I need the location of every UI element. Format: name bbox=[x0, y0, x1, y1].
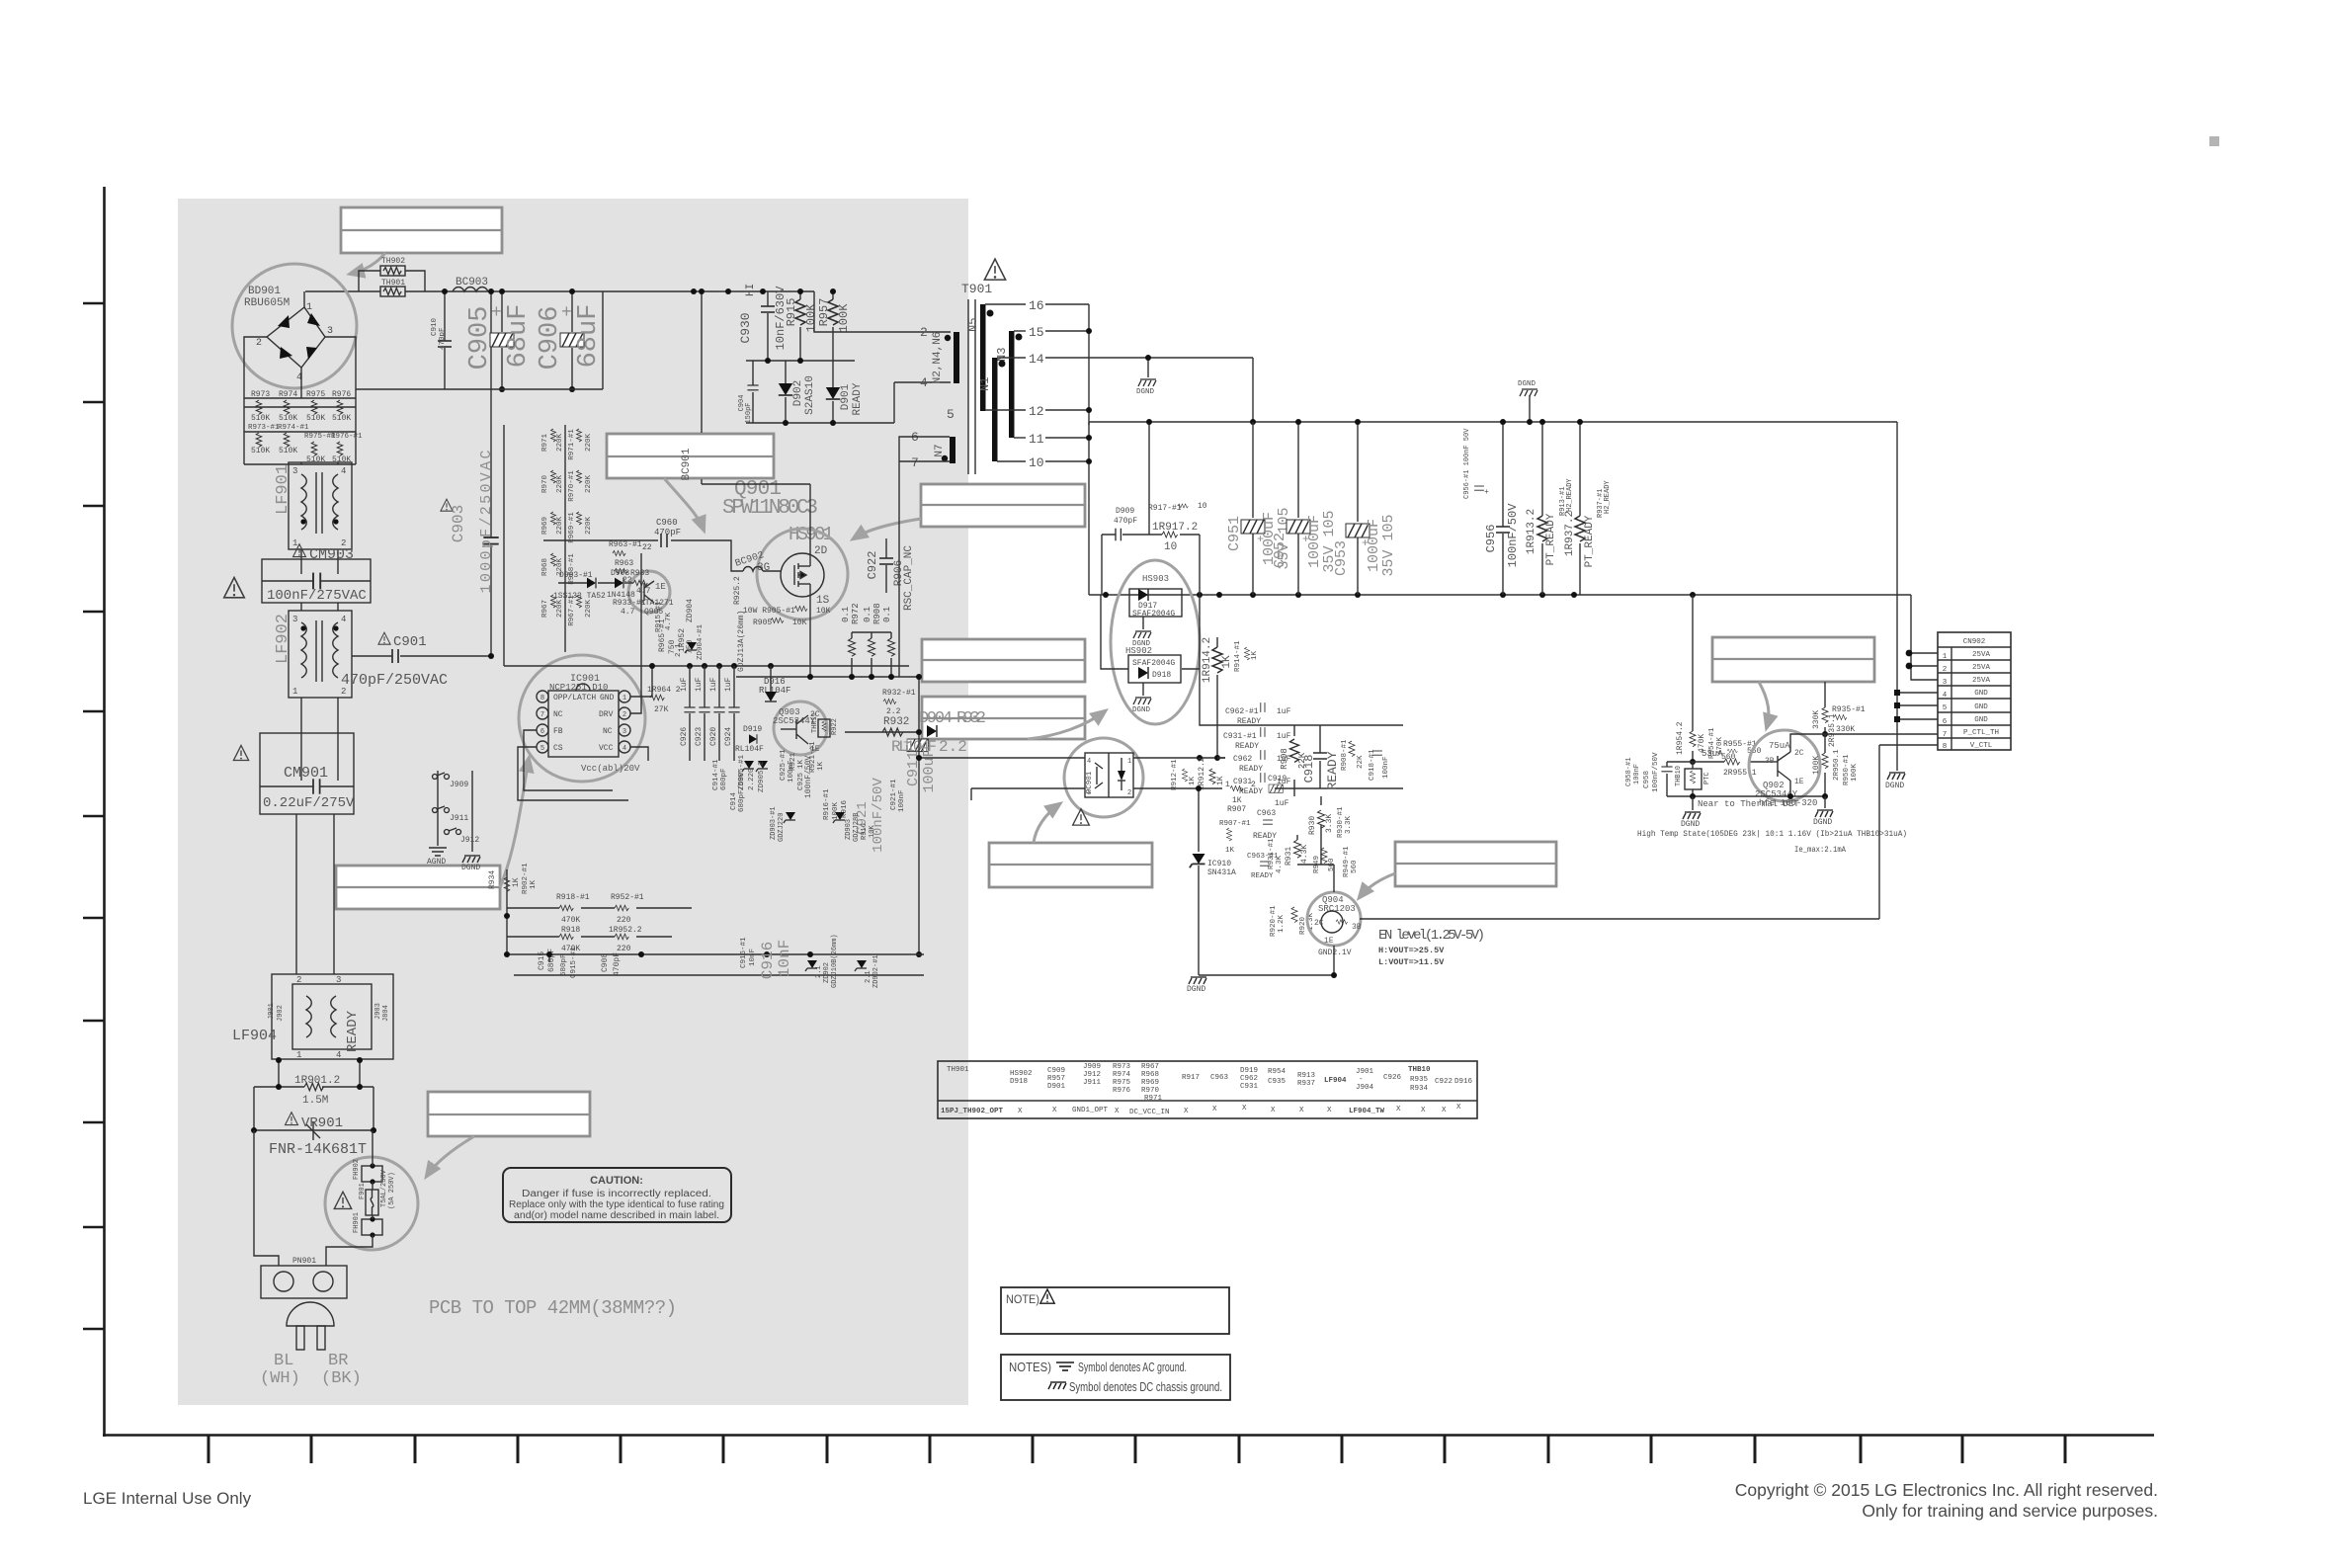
border ruler bottom line bbox=[103, 1434, 2154, 1437]
svg-text:2.1: 2.1 bbox=[865, 970, 872, 983]
svg-text:27K: 27K bbox=[654, 705, 669, 714]
svg-text:(5A 250V): (5A 250V) bbox=[388, 1172, 396, 1209]
svg-text:100K: 100K bbox=[837, 303, 851, 333]
resistor R916-#1 100K bbox=[823, 788, 849, 820]
svg-text:1: 1 bbox=[623, 695, 626, 702]
svg-text:R963: R963 bbox=[615, 559, 633, 568]
svg-text:ZD905.2: ZD905.2 bbox=[758, 761, 766, 792]
svg-text:470pF: 470pF bbox=[654, 528, 681, 537]
svg-text:J912: J912 bbox=[460, 836, 479, 845]
transformer core bbox=[967, 299, 969, 474]
svg-text:R935: R935 bbox=[1410, 1076, 1429, 1084]
svg-text:22: 22 bbox=[623, 576, 632, 585]
svg-text:D901: D901 bbox=[840, 383, 852, 410]
svg-text:C931-#1: C931-#1 bbox=[1223, 732, 1257, 741]
resistor R931 4.3K bbox=[1268, 838, 1309, 873]
svg-text:11: 11 bbox=[1029, 432, 1044, 447]
diode D901 bbox=[826, 361, 864, 423]
svg-text:J901: J901 bbox=[1356, 1068, 1374, 1076]
svg-text:R918: R918 bbox=[561, 926, 580, 935]
svg-text:1uF: 1uF bbox=[1277, 707, 1291, 716]
resistor R950 100K bbox=[1812, 734, 1859, 796]
svg-text:220K: 220K bbox=[585, 475, 593, 494]
svg-text:C962: C962 bbox=[1240, 1075, 1258, 1083]
svg-text:100K: 100K bbox=[1851, 763, 1859, 782]
svg-text:2.1: 2.1 bbox=[815, 965, 823, 978]
left ruler ticks bbox=[83, 303, 104, 1329]
thermistor TH902 bbox=[380, 257, 405, 276]
svg-text:X: X bbox=[1421, 1107, 1426, 1114]
capacitor C963-#1 READY bbox=[1247, 853, 1279, 880]
svg-text:510K: 510K bbox=[251, 447, 270, 455]
svg-text:2C: 2C bbox=[1794, 749, 1804, 758]
DGND below CN902 feed bbox=[1885, 773, 1905, 790]
wire D918 branch bbox=[1101, 595, 1225, 725]
svg-text:10: 10 bbox=[1029, 455, 1044, 470]
thermistor THR11 R922 bbox=[811, 712, 839, 737]
svg-text:6: 6 bbox=[1943, 718, 1948, 726]
callout box D (to PC901) bbox=[989, 843, 1152, 887]
resistor R930 3.3K bbox=[1308, 806, 1353, 838]
svg-text:GND2.1V: GND2.1V bbox=[1318, 949, 1352, 957]
option table bbox=[938, 1061, 1477, 1118]
svg-text:2.1: 2.1 bbox=[675, 643, 683, 657]
svg-text:4.7K: 4.7K bbox=[665, 612, 673, 630]
svg-text:R908-#1: R908-#1 bbox=[1341, 739, 1349, 771]
svg-text:THR11: THR11 bbox=[811, 712, 819, 733]
svg-text:ZD902: ZD902 bbox=[823, 962, 831, 983]
svg-text:R971-#1: R971-#1 bbox=[568, 429, 576, 460]
svg-text:680pF: 680pF bbox=[560, 953, 568, 976]
svg-text:D919: D919 bbox=[1240, 1067, 1258, 1075]
svg-text:8: 8 bbox=[540, 695, 544, 702]
svg-text:470pF: 470pF bbox=[1114, 517, 1137, 526]
svg-text:2.2: 2.2 bbox=[886, 707, 901, 716]
svg-text:1uF: 1uF bbox=[695, 677, 704, 692]
svg-text:1K: 1K bbox=[1225, 847, 1235, 855]
capacitor C956-#1 labels bbox=[1463, 428, 1489, 499]
AC inlet PN901 bbox=[261, 1257, 347, 1298]
svg-text:C956-#1 100nF 50V: C956-#1 100nF 50V bbox=[1463, 428, 1471, 499]
svg-text:C930: C930 bbox=[738, 312, 753, 343]
svg-text:BL: BL bbox=[274, 1352, 293, 1370]
svg-text:0.22uF/275V: 0.22uF/275V bbox=[263, 795, 355, 811]
transistor Q904 SRC1203 bbox=[1307, 892, 1362, 957]
svg-text:2.220: 2.220 bbox=[748, 768, 756, 790]
svg-text:J909: J909 bbox=[450, 781, 468, 789]
svg-text:READY: READY bbox=[1325, 751, 1340, 789]
svg-text:R973-#1: R973-#1 bbox=[248, 424, 280, 432]
svg-text:R907: R907 bbox=[1227, 805, 1246, 814]
svg-text:Vcc(abl)20V: Vcc(abl)20V bbox=[581, 764, 640, 774]
arrow from box G to BC902 area bbox=[664, 478, 704, 530]
svg-text:DGND: DGND bbox=[1136, 388, 1155, 396]
svg-text:R957: R957 bbox=[1047, 1075, 1065, 1083]
svg-text:100nF: 100nF bbox=[1382, 756, 1390, 779]
svg-text:C909: C909 bbox=[1047, 1067, 1065, 1075]
svg-text:BD901: BD901 bbox=[248, 286, 281, 297]
svg-text:C919: C919 bbox=[1268, 775, 1287, 784]
svg-text:F901: F901 bbox=[359, 1183, 367, 1199]
svg-text:R973: R973 bbox=[1113, 1063, 1131, 1071]
svg-text:SFAF2004G: SFAF2004G bbox=[1132, 610, 1175, 619]
DGND bottom bbox=[1187, 977, 1206, 994]
DGND below D918 bbox=[1132, 683, 1151, 714]
svg-text:PT_READY: PT_READY bbox=[1545, 513, 1557, 565]
svg-text:C951: C951 bbox=[1226, 516, 1243, 551]
svg-text:10K: 10K bbox=[792, 619, 807, 627]
svg-text:Near to Thermal DET: Near to Thermal DET bbox=[1698, 799, 1799, 809]
svg-text:TH902: TH902 bbox=[381, 257, 405, 266]
capacitor C956 100nF/50V bbox=[1484, 419, 1520, 595]
svg-text:READY: READY bbox=[1239, 765, 1263, 774]
resistor R975 bbox=[306, 390, 325, 423]
svg-text:4: 4 bbox=[341, 615, 346, 624]
svg-text:3: 3 bbox=[1943, 679, 1948, 687]
resistor R932 2.2 bbox=[882, 689, 916, 736]
svg-text:R932: R932 bbox=[956, 709, 986, 728]
resistor R915-#1 4.7K bbox=[655, 601, 673, 632]
svg-text:READY: READY bbox=[345, 1010, 361, 1052]
svg-text:DGND: DGND bbox=[1518, 380, 1536, 388]
svg-text:R908: R908 bbox=[1280, 748, 1289, 770]
wire bulk cap bottom rail bbox=[356, 291, 603, 389]
capacitor bank C926 C923 C920 C924 bbox=[680, 666, 740, 761]
svg-text:SPW11N80C3: SPW11N80C3 bbox=[722, 497, 818, 520]
svg-text:AGND: AGND bbox=[427, 858, 446, 867]
winding N1 bbox=[978, 358, 1006, 461]
arrow from box A to HS901 bbox=[854, 519, 921, 538]
svg-text:DC_VCC_IN: DC_VCC_IN bbox=[1129, 1109, 1170, 1116]
NOTES box bbox=[1001, 1355, 1230, 1400]
svg-text:CAUTION:: CAUTION: bbox=[590, 1175, 643, 1187]
svg-text:510K: 510K bbox=[306, 414, 325, 423]
svg-text:R902-#1: R902-#1 bbox=[522, 863, 530, 894]
svg-text:J902: J902 bbox=[277, 1005, 285, 1022]
pin 14 bbox=[997, 352, 1253, 367]
svg-text:C903: C903 bbox=[450, 505, 467, 542]
thermistor THB10 PTC bbox=[1675, 762, 1711, 796]
wire 25VA feed to CN902 bbox=[1911, 595, 1938, 680]
svg-text:100nF/50V: 100nF/50V bbox=[804, 756, 813, 798]
wire LF902 to CM901 bbox=[301, 603, 338, 733]
svg-text:H2_READY: H2_READY bbox=[1566, 478, 1574, 512]
svg-text:RL104F: RL104F bbox=[735, 745, 764, 754]
transformer T901 primary N2,N4,N6 bbox=[920, 325, 959, 422]
wire pin14 to +25V rail bbox=[1089, 358, 1897, 425]
svg-text:10: 10 bbox=[1164, 541, 1177, 553]
svg-text:2D: 2D bbox=[814, 545, 828, 557]
svg-text:100nF: 100nF bbox=[788, 760, 795, 783]
svg-text:R971: R971 bbox=[541, 434, 549, 453]
svg-text:3B: 3B bbox=[1765, 757, 1775, 766]
pin 11 bbox=[1014, 432, 1089, 447]
svg-text:4: 4 bbox=[1943, 692, 1948, 700]
bottom ruler ticks bbox=[208, 1436, 2065, 1463]
fuse circle group bbox=[325, 1157, 418, 1250]
svg-text:R957: R957 bbox=[817, 298, 831, 327]
svg-text:1uF: 1uF bbox=[1277, 732, 1291, 741]
snubber block C930 R915 R957 bbox=[738, 284, 855, 364]
svg-text:Ie_max:2.1mA: Ie_max:2.1mA bbox=[1794, 845, 1847, 855]
svg-text:1: 1 bbox=[306, 302, 312, 313]
svg-text:LF901: LF901 bbox=[274, 464, 292, 515]
svg-text:4.7: 4.7 bbox=[621, 608, 635, 617]
svg-text:CM901: CM901 bbox=[284, 765, 328, 782]
wire LF904 to R901 bbox=[279, 1059, 360, 1087]
wire rail corner to T901 pin2 bbox=[814, 291, 951, 332]
optocoupler PC901 bbox=[1064, 738, 1143, 817]
svg-text:FH901: FH901 bbox=[353, 1212, 361, 1233]
svg-text:HI: HI bbox=[745, 284, 757, 296]
jumpers J909 J911 J912 bbox=[427, 771, 480, 872]
svg-text:470pF: 470pF bbox=[439, 327, 447, 350]
svg-text:470K: 470K bbox=[561, 916, 580, 925]
svg-text:Symbol denotes AC ground.: Symbol denotes AC ground. bbox=[1078, 1361, 1187, 1374]
svg-text:3: 3 bbox=[292, 615, 297, 624]
svg-text:N1: N1 bbox=[978, 377, 992, 391]
svg-text:68uF: 68uF bbox=[504, 304, 534, 369]
svg-text:J912: J912 bbox=[1083, 1071, 1101, 1079]
svg-text:1K: 1K bbox=[817, 761, 825, 771]
svg-text:330K: 330K bbox=[1836, 725, 1855, 734]
plug symbol bbox=[287, 1302, 334, 1350]
svg-text:-: - bbox=[1359, 1076, 1364, 1084]
capacitor C931-#1 1uF READY bbox=[1223, 727, 1291, 751]
svg-text:Symbol denotes DC chassis grou: Symbol denotes DC chassis ground. bbox=[1069, 1380, 1222, 1394]
svg-text:1R917.2: 1R917.2 bbox=[1152, 522, 1198, 534]
electrolytic C911 100uF bbox=[903, 735, 938, 793]
svg-text:C920: C920 bbox=[709, 727, 718, 746]
svg-text:14: 14 bbox=[1029, 352, 1044, 367]
svg-text:R976-#1: R976-#1 bbox=[331, 433, 363, 441]
zener ZD904 + GDZJ13A bbox=[675, 599, 746, 672]
svg-text:J804: J804 bbox=[382, 1005, 390, 1022]
svg-text:10nF: 10nF bbox=[749, 949, 757, 966]
callout box I (top left) bbox=[341, 207, 502, 253]
svg-text:1: 1 bbox=[1943, 653, 1948, 661]
svg-text:2C: 2C bbox=[1314, 919, 1324, 928]
svg-text:C914: C914 bbox=[730, 791, 738, 810]
svg-text:100K: 100K bbox=[1812, 756, 1821, 775]
svg-text:X: X bbox=[1396, 1106, 1401, 1114]
svg-text:4.7: 4.7 bbox=[636, 587, 651, 596]
thermistor TH901 bbox=[380, 279, 405, 296]
svg-text:R917-#1: R917-#1 bbox=[1148, 504, 1182, 513]
MOSFET Q901 symbol in HS901 circle bbox=[757, 529, 848, 619]
pin 16 bbox=[985, 298, 1089, 313]
svg-text:1.5M: 1.5M bbox=[302, 1095, 328, 1107]
svg-text:53uA: 53uA bbox=[1702, 749, 1723, 759]
line filter LF904 bbox=[232, 974, 393, 1060]
svg-text:R922: R922 bbox=[831, 718, 839, 735]
capacitor C918-#1 100nF bbox=[1369, 749, 1390, 781]
svg-text:(WH): (WH) bbox=[260, 1369, 300, 1388]
svg-text:LGE Internal Use Only: LGE Internal Use Only bbox=[83, 1489, 252, 1508]
capacitor C921 100nF/50V bbox=[855, 778, 906, 853]
electrolytic C953 bbox=[1333, 422, 1397, 595]
svg-text:68uF: 68uF bbox=[574, 304, 604, 369]
wire V_CTL net bbox=[1879, 744, 1938, 746]
svg-text:L:VOUT=>11.5V: L:VOUT=>11.5V bbox=[1378, 957, 1445, 967]
capacitor C914 680pF bbox=[712, 759, 746, 812]
rail above IC901 bbox=[504, 425, 909, 666]
svg-text:220K: 220K bbox=[585, 600, 593, 619]
capacitor C919 1uF bbox=[1268, 775, 1289, 808]
svg-text:C901: C901 bbox=[393, 634, 427, 650]
electrolytic C951 bbox=[1226, 422, 1292, 595]
wire snubber bottom rail to T901 pin4 bbox=[746, 382, 951, 423]
svg-text:R916: R916 bbox=[861, 823, 869, 840]
winding N5 bbox=[966, 304, 994, 411]
resistor R913 PT_READY bbox=[1526, 419, 1574, 595]
rectifier D918 SFAF2004G bbox=[1128, 655, 1181, 683]
transistor Q905 circle bbox=[628, 571, 670, 613]
warning triangle left bbox=[224, 578, 245, 598]
diode D902 bbox=[779, 361, 816, 423]
wire IC901 loops bbox=[518, 553, 652, 800]
svg-text:C918: C918 bbox=[1302, 755, 1316, 784]
svg-text:ZD904: ZD904 bbox=[686, 599, 695, 622]
svg-text:2R950.1: 2R950.1 bbox=[1833, 749, 1841, 781]
svg-text:3B: 3B bbox=[1352, 923, 1362, 932]
svg-text:6: 6 bbox=[540, 728, 544, 736]
callout box B bbox=[922, 639, 1085, 682]
callout box A (right of gray, top) bbox=[921, 484, 1085, 527]
svg-text:T5AL/250V: T5AL/250V bbox=[380, 1169, 388, 1207]
svg-text:220K: 220K bbox=[556, 434, 564, 453]
svg-text:DGND: DGND bbox=[1681, 820, 1700, 829]
ferrite BC901 column bbox=[681, 289, 705, 484]
svg-text:C958-#1: C958-#1 bbox=[1625, 758, 1633, 786]
capacitor C922 bbox=[866, 538, 893, 593]
svg-text:R912-#1: R912-#1 bbox=[1171, 759, 1179, 790]
svg-text:35V 105: 35V 105 bbox=[1380, 514, 1397, 576]
bottom rails gray bbox=[504, 954, 924, 975]
svg-text:Danger if fuse is incorrectly: Danger if fuse is incorrectly replaced. bbox=[522, 1189, 711, 1199]
svg-text:220K: 220K bbox=[556, 517, 564, 536]
svg-text:R975: R975 bbox=[306, 390, 325, 399]
svg-text:C962-#1: C962-#1 bbox=[1225, 707, 1259, 716]
svg-text:ZD904-#1: ZD904-#1 bbox=[697, 623, 705, 660]
svg-text:GDZJ13A(26mm): GDZJ13A(26mm) bbox=[737, 611, 746, 672]
callout box F (to Q902) bbox=[1712, 637, 1874, 682]
svg-text:C931: C931 bbox=[1233, 778, 1252, 786]
svg-text:PN901: PN901 bbox=[292, 1257, 316, 1266]
svg-text:X: X bbox=[1052, 1107, 1057, 1114]
svg-text:NOTE): NOTE) bbox=[1006, 1292, 1039, 1306]
svg-text:100nF: 100nF bbox=[1633, 764, 1641, 784]
svg-text:220K: 220K bbox=[585, 517, 593, 536]
svg-text:4.3K: 4.3K bbox=[1276, 855, 1284, 873]
resistor R925 R905 10K bbox=[733, 576, 831, 627]
svg-text:3.3K: 3.3K bbox=[1325, 814, 1334, 833]
svg-text:D901: D901 bbox=[1047, 1083, 1066, 1091]
capacitor C931 1uF READY bbox=[1233, 773, 1291, 796]
svg-text:R963-#1: R963-#1 bbox=[609, 540, 642, 549]
svg-text:560: 560 bbox=[1351, 860, 1359, 873]
svg-text:ZD902-#1: ZD902-#1 bbox=[872, 954, 880, 988]
svg-text:R972: R972 bbox=[851, 603, 861, 624]
resistor R974 bbox=[279, 390, 297, 423]
svg-text:510K: 510K bbox=[251, 414, 270, 423]
svg-text:C953: C953 bbox=[1333, 540, 1350, 576]
svg-text:+: + bbox=[561, 303, 572, 323]
resistor R918 470K bbox=[559, 926, 580, 953]
svg-text:1E: 1E bbox=[1794, 778, 1804, 786]
svg-text:2R935.1: 2R935.1 bbox=[1828, 713, 1837, 747]
wire P_CTL_TH net bbox=[1825, 733, 1938, 735]
svg-text:R908: R908 bbox=[872, 603, 882, 624]
arrow from box F to Q902 bbox=[1759, 682, 1769, 727]
svg-text:1uF: 1uF bbox=[680, 677, 689, 692]
varistor VR901 bbox=[251, 1087, 376, 1158]
resistor R908-#1 22K bbox=[1341, 739, 1365, 771]
svg-text:PCB TO TOP 42MM(38MM??): PCB TO TOP 42MM(38MM??) bbox=[429, 1297, 677, 1319]
svg-text:1uF: 1uF bbox=[1275, 799, 1289, 808]
resistor R973-#1 bbox=[248, 424, 280, 455]
inductor BC903 bbox=[453, 277, 488, 291]
svg-text:R949-#1: R949-#1 bbox=[1343, 846, 1351, 877]
capacitor C908 470pF bbox=[601, 952, 622, 976]
svg-text:R952-#1: R952-#1 bbox=[611, 893, 644, 902]
svg-text:1R914.2: 1R914.2 bbox=[1202, 637, 1213, 683]
svg-text:X: X bbox=[1327, 1107, 1332, 1114]
svg-text:R974: R974 bbox=[279, 390, 297, 399]
svg-text:ZD903: ZD903 bbox=[845, 819, 853, 840]
svg-text:R935-#1: R935-#1 bbox=[1832, 705, 1866, 714]
resistor R912 1K bbox=[1198, 757, 1225, 790]
svg-text:1K: 1K bbox=[512, 877, 521, 887]
wire LF901 to CM903 bbox=[301, 462, 338, 559]
svg-text:10: 10 bbox=[1198, 502, 1207, 511]
wire bridge to resistor bank bbox=[244, 337, 356, 464]
svg-text:3: 3 bbox=[292, 466, 297, 476]
svg-text:GND: GND bbox=[1974, 703, 1988, 711]
svg-text:Replace only with the type ide: Replace only with the type identical to … bbox=[509, 1199, 724, 1210]
arrow from box C to HS902 bbox=[1028, 711, 1105, 739]
svg-text:1K: 1K bbox=[530, 879, 538, 889]
svg-text:R967: R967 bbox=[541, 600, 549, 618]
svg-text:1E: 1E bbox=[655, 582, 666, 592]
svg-text:15PJ_TH902_OPT: 15PJ_TH902_OPT bbox=[941, 1108, 1004, 1115]
capacitor C962-#1 1uF READY bbox=[1225, 702, 1291, 726]
svg-text:C926: C926 bbox=[680, 727, 689, 746]
transformer T901 winding N7 bbox=[911, 430, 955, 470]
svg-text:P_CTL_TH: P_CTL_TH bbox=[1963, 729, 1999, 737]
svg-text:10W R905-#1: 10W R905-#1 bbox=[743, 607, 795, 616]
arrow from box H to fuse circle bbox=[427, 1136, 474, 1176]
svg-text:470pF/250VAC: 470pF/250VAC bbox=[341, 672, 448, 689]
svg-text:1: 1 bbox=[1225, 781, 1230, 789]
svg-text:C916-#1: C916-#1 bbox=[740, 937, 748, 968]
svg-text:N5: N5 bbox=[966, 318, 980, 332]
svg-text:1R937.2: 1R937.2 bbox=[1564, 511, 1576, 556]
wire Q901 drain bbox=[702, 484, 810, 558]
svg-text:8: 8 bbox=[1943, 743, 1948, 751]
diode D903 1N4148 bbox=[598, 569, 635, 600]
svg-text:DGND: DGND bbox=[1187, 985, 1205, 994]
svg-text:RBU605M: RBU605M bbox=[244, 297, 290, 309]
svg-text:25VA: 25VA bbox=[1972, 651, 1991, 659]
svg-text:1: 1 bbox=[292, 538, 297, 548]
X-cap CM903 bbox=[262, 544, 371, 604]
svg-text:TH901: TH901 bbox=[947, 1066, 969, 1074]
svg-text:3.3K: 3.3K bbox=[1345, 815, 1353, 834]
svg-text:7: 7 bbox=[540, 711, 544, 719]
svg-text:25VA: 25VA bbox=[1972, 677, 1991, 685]
svg-text:1R954.2: 1R954.2 bbox=[1676, 721, 1685, 755]
